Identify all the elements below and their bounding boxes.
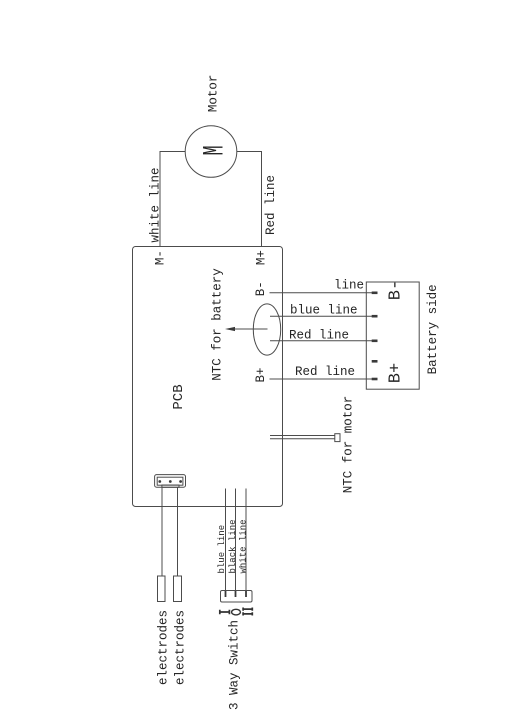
svg-text:electrodes: electrodes xyxy=(157,610,171,685)
svg-text:Red line: Red line xyxy=(264,175,278,235)
connector J2 bottom bar xyxy=(162,485,179,487)
electrode 1 xyxy=(158,576,166,602)
svg-text:NTC for battery: NTC for battery xyxy=(211,268,225,381)
svg-text:black line: black line xyxy=(228,519,238,573)
svg-text:line: line xyxy=(334,278,364,292)
wire motor white line xyxy=(160,152,185,247)
switch pin tick 1 xyxy=(225,591,227,597)
svg-text:Red line: Red line xyxy=(289,329,349,343)
electrode 2 xyxy=(174,576,182,602)
switch S1 (3 way switch box) xyxy=(221,591,253,603)
wire NTC motor lead 1 xyxy=(270,435,335,437)
svg-text:B+: B+ xyxy=(387,363,406,383)
connector J2 (electrode header) outer xyxy=(155,475,186,488)
battery pin tick 4 (unused) xyxy=(372,360,378,363)
motor M1 xyxy=(185,126,237,178)
wire switch white line xyxy=(245,489,247,591)
svg-text:M-: M- xyxy=(154,250,168,265)
svg-text:white line: white line xyxy=(238,519,248,573)
svg-text:B-: B- xyxy=(254,281,268,296)
switch position label I xyxy=(219,610,230,615)
battery pin tick 1 xyxy=(372,291,378,294)
arrow to NTC for battery label xyxy=(231,328,268,330)
svg-text:PCB: PCB xyxy=(171,384,187,409)
wire electrode 2 xyxy=(177,488,179,577)
svg-text:M: M xyxy=(199,145,232,155)
wire motor Red line xyxy=(237,152,262,247)
svg-text:NTC for motor: NTC for motor xyxy=(342,396,356,494)
battery connector J3 (Battery side box) xyxy=(366,282,419,389)
svg-text:white line: white line xyxy=(148,167,162,242)
thermistor RT2 bead NTC for motor xyxy=(335,434,340,442)
svg-text:blue line: blue line xyxy=(290,304,358,318)
wire NTC motor lead 2 xyxy=(270,438,335,440)
connector J2 pin dot 3 xyxy=(179,480,182,483)
connector J2 pin dot 2 xyxy=(169,480,172,483)
wire 2 blue line xyxy=(270,315,372,317)
svg-text:B-: B- xyxy=(387,280,406,300)
wire 4 Red line B+ to battery xyxy=(270,378,373,380)
switch position label II xyxy=(243,608,253,616)
svg-text:Motor: Motor xyxy=(207,75,221,113)
wire switch blue line xyxy=(225,489,227,591)
svg-text:Battery side: Battery side xyxy=(426,284,440,374)
connector J2 inner xyxy=(157,477,183,485)
wire switch black line xyxy=(235,489,237,591)
battery pin tick 3 xyxy=(372,339,378,342)
thermistor RT1 NTC for battery (ellipse) xyxy=(253,304,280,355)
battery pin tick 5 xyxy=(372,378,378,381)
switch position label O xyxy=(232,609,241,615)
switch pin tick 2 xyxy=(235,591,237,597)
svg-text:electrodes: electrodes xyxy=(174,610,188,685)
svg-text:blue line: blue line xyxy=(217,525,227,574)
wire 3 Red line xyxy=(270,340,372,342)
PCB U1 xyxy=(133,247,283,507)
wire 1 black line B- to battery xyxy=(270,292,373,294)
svg-text:Red line: Red line xyxy=(295,365,355,379)
svg-text:3 Way Switch: 3 Way Switch xyxy=(228,620,242,710)
wire electrode 1 xyxy=(161,488,163,577)
battery pin tick 2 xyxy=(372,315,378,318)
svg-text:M+: M+ xyxy=(255,250,269,265)
switch pin tick 3 xyxy=(245,591,247,597)
connector J2 pin dot 1 xyxy=(158,480,161,483)
svg-text:B+: B+ xyxy=(254,367,268,382)
